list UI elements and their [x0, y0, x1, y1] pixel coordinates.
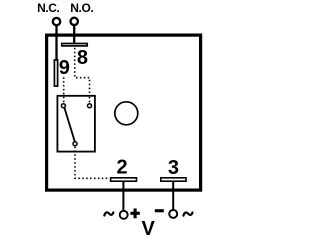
- contact box: [57, 96, 95, 152]
- svg-text:9: 9: [59, 57, 70, 79]
- terminal 2 bar: [111, 178, 137, 181]
- terminal 8 bar: [62, 44, 87, 46]
- dashed wire terminal 8 to N.O. contact: [75, 48, 90, 97]
- contact common: [73, 142, 77, 146]
- terminal 3 bar: [161, 178, 186, 181]
- wire N.O. terminal to terminal 8: [73, 25, 75, 44]
- svg-text:8: 8: [77, 47, 88, 69]
- svg-text:N.O.: N.O.: [70, 1, 93, 15]
- supply terminal left: [120, 211, 128, 219]
- dashed wire terminal 9 to N.C. contact: [63, 77, 65, 102]
- AC symbol left: [104, 212, 113, 215]
- minus sign: [155, 209, 164, 212]
- wire terminal 2 to supply: [122, 182, 124, 211]
- contact N.O.: [88, 104, 92, 108]
- wire terminal 3 to supply: [172, 182, 174, 211]
- svg-text:V: V: [142, 218, 156, 240]
- svg-text:N.C.: N.C.: [37, 1, 59, 15]
- dial hole: [115, 102, 138, 125]
- dashed wire terminal 8 to N.O. contact inside segment: [89, 97, 91, 103]
- relay module outline: [47, 35, 201, 190]
- terminal N.O. circle: [71, 18, 78, 25]
- switch arm: [65, 108, 75, 141]
- svg-text:3: 3: [168, 157, 179, 179]
- svg-text:2: 2: [116, 157, 127, 179]
- supply terminal right: [169, 210, 177, 218]
- AC symbol right: [183, 212, 192, 215]
- plus sign: [130, 209, 139, 219]
- contact N.C. pivot: [61, 104, 65, 108]
- terminal N.C. circle: [53, 18, 60, 25]
- wire N.C. terminal to terminal 9: [55, 26, 57, 61]
- dashed wire common contact to terminal 2: [75, 147, 110, 179]
- terminal 9 bar: [54, 60, 57, 86]
